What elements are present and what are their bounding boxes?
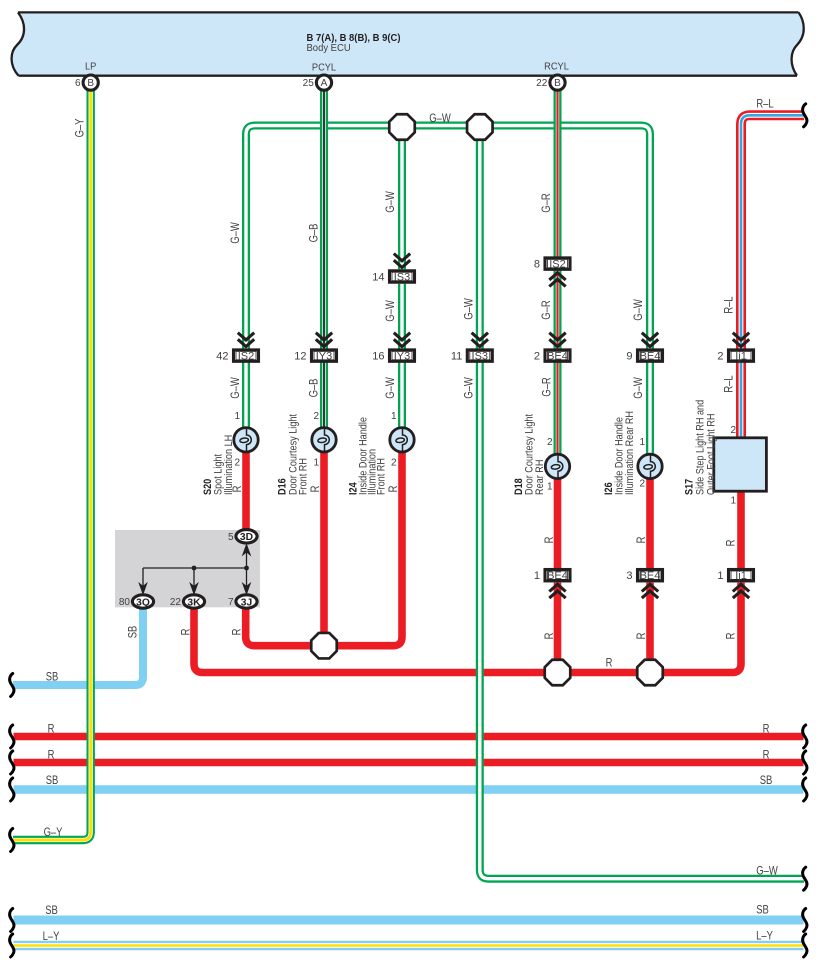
svg-text:BE4: BE4 [640, 351, 661, 363]
junction ellipse 22 3K [170, 595, 205, 609]
svg-text:12: 12 [294, 351, 306, 363]
connector 11 IS3 [451, 333, 492, 363]
svg-text:G–W: G–W [632, 298, 645, 320]
svg-text:2: 2 [234, 458, 240, 469]
wire R bus A [14, 733, 804, 741]
wire R bus B [14, 759, 804, 767]
svg-text:9: 9 [626, 351, 632, 363]
wire labels horizontal [43, 98, 779, 944]
wire G-W I24 lower [398, 363, 406, 429]
component S17 Side Step Light RH and Outer Foot Light RH [714, 438, 767, 491]
svg-text:Rear RH: Rear RH [534, 460, 546, 495]
svg-text:G–W: G–W [384, 299, 397, 321]
svg-text:R: R [48, 723, 55, 736]
break SB bottom-left [10, 674, 14, 697]
svg-text:11: 11 [451, 351, 462, 363]
break R-L top-right [803, 104, 807, 127]
wire G-W pass-through branch [476, 138, 484, 349]
svg-text:G–R: G–R [541, 377, 554, 397]
svg-text:G–W: G–W [632, 376, 645, 398]
wire R-L top to Ij1 [741, 115, 804, 348]
component name S20 [202, 435, 235, 495]
break SB bus left [10, 778, 14, 801]
wire G-B PCYL to D16 [320, 89, 328, 428]
bulb D16 Door Courtesy Light Front RH [312, 428, 336, 452]
svg-text:G–Y: G–Y [44, 826, 63, 839]
component name S17 [684, 400, 718, 495]
svg-text:1: 1 [547, 482, 553, 493]
svg-text:R: R [763, 749, 770, 762]
connector 16 IY3 [372, 333, 414, 363]
svg-text:2: 2 [547, 437, 553, 448]
junction octagon on G-W at I24 [389, 114, 415, 140]
connector 2 Ij1 [717, 333, 753, 363]
svg-text:G–B: G–B [308, 379, 321, 398]
svg-text:R: R [231, 628, 244, 635]
wire G-W top manifold [246, 126, 650, 349]
svg-text:SB: SB [756, 904, 769, 917]
svg-text:R–L: R–L [723, 375, 736, 392]
svg-text:RCYL: RCYL [544, 61, 569, 73]
svg-text:R: R [725, 539, 738, 546]
svg-text:R: R [543, 536, 556, 543]
svg-text:2: 2 [313, 411, 319, 422]
connector 1 Ij1 [717, 570, 753, 599]
pin 25 A (PCYL) [303, 75, 332, 90]
svg-text:R: R [543, 632, 556, 639]
junction octagon on bus2 at D18 [545, 660, 571, 686]
svg-text:SB: SB [760, 774, 773, 787]
junction octagon on bus1 [311, 633, 337, 659]
svg-text:BE4: BE4 [547, 570, 568, 582]
svg-text:Ij1: Ij1 [735, 351, 747, 363]
break SB bus right [803, 778, 807, 801]
svg-text:R: R [309, 485, 322, 492]
svg-text:2: 2 [717, 351, 723, 363]
connector 3 BE4 [626, 570, 662, 599]
svg-text:B: B [554, 78, 561, 89]
svg-text:2: 2 [639, 479, 645, 490]
svg-text:8: 8 [534, 259, 540, 271]
component name D16 [277, 414, 310, 495]
break R bus A right [803, 725, 807, 748]
wire SB junction 3Q to bottom-left break [13, 606, 143, 685]
junction block (gray) [115, 530, 260, 607]
svg-text:G–W: G–W [463, 297, 476, 319]
svg-text:R: R [387, 485, 400, 492]
svg-text:IY3: IY3 [316, 351, 333, 363]
svg-text:Illumination LH: Illumination LH [223, 435, 235, 495]
bulb I26 Inside Door Handle Illumination Rear RH [638, 454, 662, 478]
svg-text:LP: LP [85, 61, 97, 73]
svg-text:Illumination Rear RH: Illumination Rear RH [624, 411, 636, 495]
svg-text:2: 2 [391, 458, 397, 469]
svg-text:16: 16 [372, 351, 384, 363]
wire G-W pass-through to bottom-right break [480, 363, 804, 879]
wire labels rotated [74, 119, 738, 640]
bulb pin numbers [234, 411, 736, 507]
svg-text:R: R [635, 632, 648, 639]
svg-text:42: 42 [216, 351, 228, 363]
component name I24 [348, 417, 388, 495]
svg-text:G–W: G–W [384, 190, 397, 212]
junction ellipse 80 3Q [119, 595, 154, 609]
wire R D16 drop [320, 452, 328, 640]
svg-text:14: 14 [372, 272, 384, 284]
svg-text:Outer Foot Light RH: Outer Foot Light RH [706, 414, 718, 495]
svg-text:1: 1 [639, 437, 645, 448]
bulb S20 Spot Light Illumination LH [234, 428, 258, 452]
svg-text:R–L: R–L [723, 296, 736, 313]
pin 22 B (RCYL) [536, 75, 565, 90]
svg-text:R: R [606, 657, 613, 670]
break SB bottom bus left [10, 909, 14, 932]
svg-text:L–Y: L–Y [43, 930, 60, 943]
component name I26 [603, 411, 636, 495]
svg-text:3: 3 [626, 570, 632, 582]
svg-text:L–Y: L–Y [756, 930, 773, 943]
break G-Y bottom-left [10, 829, 14, 852]
svg-text:2: 2 [534, 351, 540, 363]
svg-text:22: 22 [170, 597, 182, 608]
wire G-Y LP to bottom-left break [13, 89, 91, 840]
junction block internal wiring [138, 543, 251, 595]
svg-text:G–W: G–W [229, 376, 242, 398]
svg-text:A: A [321, 78, 328, 89]
svg-text:B: B [87, 78, 94, 89]
connector 8 IS2 [534, 258, 570, 287]
svg-text:IS2: IS2 [549, 259, 566, 271]
svg-text:R: R [635, 536, 648, 543]
wire SB bottom bus [14, 916, 804, 925]
svg-text:G–Y: G–Y [74, 119, 87, 138]
connector 9 BE4 [626, 333, 662, 363]
svg-text:3D: 3D [240, 532, 253, 543]
svg-text:6: 6 [75, 78, 81, 89]
break SB bottom bus right [803, 909, 807, 932]
svg-text:IS2: IS2 [238, 351, 255, 363]
bulb D18 Door Courtesy Light Rear RH [545, 454, 569, 478]
svg-text:Front RH: Front RH [298, 458, 310, 495]
wire R D18 lower [554, 583, 562, 667]
break G-W bottom-right [803, 867, 807, 890]
wire R bus1 3J to I24 [246, 452, 402, 646]
svg-text:SB: SB [45, 904, 58, 917]
svg-text:SB: SB [46, 774, 59, 787]
wire G-R RCYL to D18 [554, 89, 562, 455]
svg-text:IY3: IY3 [394, 351, 411, 363]
svg-text:R: R [725, 632, 738, 639]
break R bus A left [10, 725, 14, 748]
wire G-W I24 branch [398, 138, 406, 269]
connector 14 IS3 [372, 254, 414, 284]
svg-text:1: 1 [717, 570, 723, 582]
svg-text:R: R [180, 628, 193, 635]
svg-text:G–R: G–R [540, 193, 553, 213]
svg-text:IS3: IS3 [394, 272, 411, 284]
svg-text:SB: SB [127, 626, 140, 639]
wire R S20 to 3D [242, 452, 250, 530]
break R bus B left [10, 751, 14, 774]
svg-text:7: 7 [228, 597, 234, 608]
svg-text:BE4: BE4 [547, 351, 568, 363]
svg-text:IS3: IS3 [472, 351, 489, 363]
wire R S17 to Ij1 [737, 491, 745, 569]
connector 1 BE4 [534, 570, 570, 599]
svg-text:25: 25 [303, 78, 315, 89]
junction ellipse 7 3J [228, 595, 257, 609]
ECU banner B 7(A), B 8(B), B 9(C) Body ECU [12, 12, 804, 75]
svg-text:1: 1 [313, 458, 319, 469]
svg-text:G–W: G–W [384, 376, 397, 398]
connector 2 BE4 [534, 333, 570, 363]
svg-text:R: R [763, 723, 770, 736]
junction ellipse 5 3D [228, 530, 257, 544]
svg-text:1: 1 [391, 411, 397, 422]
svg-text:3Q: 3Q [136, 597, 150, 608]
svg-text:80: 80 [119, 597, 131, 608]
wire R I26 lower [646, 583, 654, 667]
svg-text:R: R [48, 749, 55, 762]
break L-Y bus right [803, 934, 807, 957]
svg-text:Front RH: Front RH [376, 458, 388, 495]
svg-text:G–R: G–R [540, 300, 553, 320]
wire R D18 to BE4 [554, 478, 562, 568]
svg-text:PCYL: PCYL [312, 62, 337, 74]
svg-text:BE4: BE4 [640, 570, 661, 582]
wire SB bus [14, 785, 804, 793]
svg-text:G–B: G–B [308, 224, 321, 243]
svg-text:2: 2 [730, 425, 736, 436]
svg-text:3K: 3K [187, 597, 201, 608]
wire L-Y bus [14, 941, 804, 950]
component name D18 [513, 414, 546, 495]
svg-text:Body ECU: Body ECU [307, 42, 351, 53]
pin 6 B (LP) [75, 75, 98, 90]
break R bus B right [803, 751, 807, 774]
svg-text:1: 1 [534, 570, 540, 582]
wire R-L Ij1 to S17 [736, 363, 746, 439]
junction octagon on G-W pass-through [467, 114, 493, 140]
svg-text:5: 5 [228, 532, 234, 543]
svg-text:SB: SB [46, 671, 59, 684]
svg-text:R–L: R–L [756, 98, 773, 111]
svg-text:3J: 3J [241, 597, 253, 608]
bulb I24 Inside Door Handle Illumination Front RH [390, 428, 414, 452]
svg-text:G–W: G–W [463, 376, 476, 398]
junction octagon on bus2 at I26 [637, 660, 663, 686]
svg-text:G–W: G–W [229, 221, 242, 243]
wire G-W I26 lower [646, 363, 654, 455]
connector 12 IY3 [294, 333, 336, 363]
wire G-W S20 lower [242, 363, 250, 429]
svg-text:G–W: G–W [756, 865, 778, 878]
wire R I26 to BE4 [646, 478, 654, 568]
break L-Y bus left [10, 934, 14, 957]
wire R bus2 3K to Ij1 [194, 583, 741, 673]
svg-text:1: 1 [730, 496, 736, 507]
svg-text:G–W: G–W [429, 112, 451, 125]
svg-text:Ij1: Ij1 [735, 570, 747, 582]
svg-text:22: 22 [536, 78, 548, 89]
wire G-W I24 mid [398, 284, 406, 349]
connector 42 IS2 [216, 333, 258, 363]
svg-text:1: 1 [234, 411, 240, 422]
